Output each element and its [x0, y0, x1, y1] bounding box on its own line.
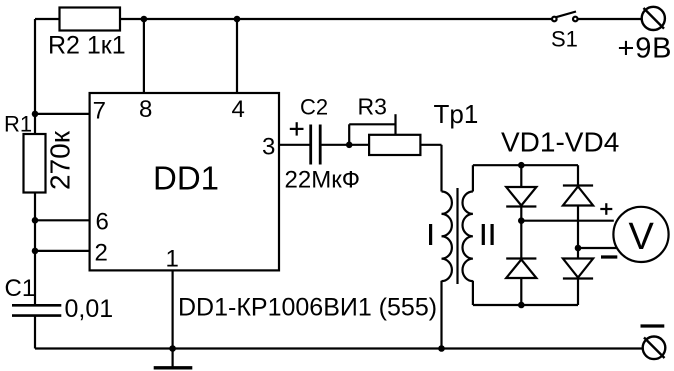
- svg-text:22МкФ: 22МкФ: [285, 167, 360, 194]
- wire bottom rail: [35, 347, 643, 349]
- capacitor C1: [12, 304, 61, 307]
- svg-text:R1: R1: [4, 112, 32, 137]
- switch S1: [552, 17, 557, 22]
- svg-text:270к: 270к: [45, 130, 76, 190]
- plus sign output: [600, 208, 612, 210]
- wire minus output: [578, 247, 618, 249]
- svg-text:+9В: +9В: [618, 33, 673, 65]
- minus sign output: [601, 255, 617, 258]
- resistor R2: [60, 8, 121, 31]
- svg-text:1: 1: [166, 246, 179, 273]
- wire pin 1: [172, 270, 174, 348]
- label I: [429, 224, 432, 245]
- svg-text:C2: C2: [300, 95, 328, 120]
- svg-text:8: 8: [139, 96, 152, 123]
- resistor R1: [24, 134, 46, 193]
- capacitor C2: [309, 125, 312, 165]
- svg-text:R3: R3: [358, 94, 387, 120]
- transformer core: [456, 188, 458, 284]
- wire S1 to +9V terminal: [577, 18, 641, 20]
- wire C2 to R3: [321, 144, 369, 146]
- wire right branch top: [577, 165, 579, 186]
- wire primary bottom: [440, 281, 442, 349]
- wire pin 7: [35, 113, 90, 115]
- terminal +9V: [642, 7, 665, 30]
- node bridge bottom-left: [518, 302, 525, 309]
- node pin1 bottom junction: [169, 345, 176, 352]
- node A junction C2/R3: [346, 142, 353, 149]
- C2 plus sign: [290, 128, 304, 130]
- wire right branch bottom: [577, 279, 579, 306]
- svg-text:DD1-КР1006ВИ1 (555): DD1-КР1006ВИ1 (555): [178, 294, 437, 322]
- wire pin 4: [236, 19, 238, 93]
- label II: [482, 224, 485, 245]
- svg-text:0,01: 0,01: [65, 295, 114, 323]
- svg-text:R2 1к1: R2 1к1: [48, 32, 126, 60]
- resistor R3: [369, 135, 420, 155]
- svg-text:C1: C1: [5, 275, 36, 302]
- node bridge top-left: [518, 162, 525, 169]
- transformer secondary winding II: [462, 192, 472, 282]
- diode VD4 (right bottom, pointing down): [563, 259, 593, 278]
- wire pin 6: [35, 219, 90, 221]
- node primary bottom junction: [438, 345, 445, 352]
- svg-text:VD1-VD4: VD1-VD4: [501, 127, 619, 158]
- wire left branch middle: [520, 207, 522, 259]
- svg-text:3: 3: [262, 134, 275, 161]
- wire secondary top to bridge: [472, 165, 474, 191]
- node R1/pin7 junction: [32, 111, 39, 118]
- node pin4 top junction: [234, 16, 241, 23]
- svg-text:4: 4: [232, 96, 245, 123]
- terminal minus (bottom right): [643, 337, 666, 360]
- wire R3 to transformer: [420, 144, 441, 146]
- svg-text:Tp1: Tp1: [434, 99, 479, 129]
- op-amp U1 : IC DD1 box: [90, 93, 279, 270]
- node pin8 top junction: [141, 16, 148, 23]
- wire left branch top: [520, 165, 522, 187]
- transformer primary winding I: [442, 192, 452, 282]
- ground: [172, 349, 174, 367]
- svg-text:2: 2: [95, 240, 108, 267]
- svg-text:7: 7: [93, 98, 106, 125]
- diode VD1 (left top, pointing down): [506, 187, 536, 206]
- wire secondary bottom to bridge: [472, 281, 474, 305]
- wire right branch middle: [577, 206, 579, 259]
- wire pin 8: [143, 19, 145, 93]
- voltmeter V: [613, 207, 668, 262]
- diode VD2 (right top, pointing up): [563, 184, 593, 186]
- node pin2 junction: [32, 248, 39, 255]
- wire left rail upper: [34, 19, 36, 305]
- svg-text:V: V: [629, 216, 655, 258]
- wire top rail: [35, 18, 552, 20]
- wire left rail lower (below C1): [34, 316, 36, 349]
- wire plus output: [521, 220, 614, 222]
- node bridge left mid (+): [518, 217, 525, 224]
- node pin6 junction: [32, 217, 39, 224]
- R3 wiper wires: [348, 124, 350, 145]
- wire pin 3: [279, 144, 310, 146]
- minus bar label: [641, 324, 665, 327]
- diode VD3 (left bottom, pointing up): [506, 257, 536, 259]
- svg-text:6: 6: [96, 209, 109, 236]
- svg-text:DD1: DD1: [153, 160, 219, 197]
- node bridge right mid (-): [575, 245, 582, 252]
- wire pin 2: [35, 250, 90, 252]
- svg-text:S1: S1: [551, 27, 578, 52]
- wire left branch bottom: [520, 278, 522, 305]
